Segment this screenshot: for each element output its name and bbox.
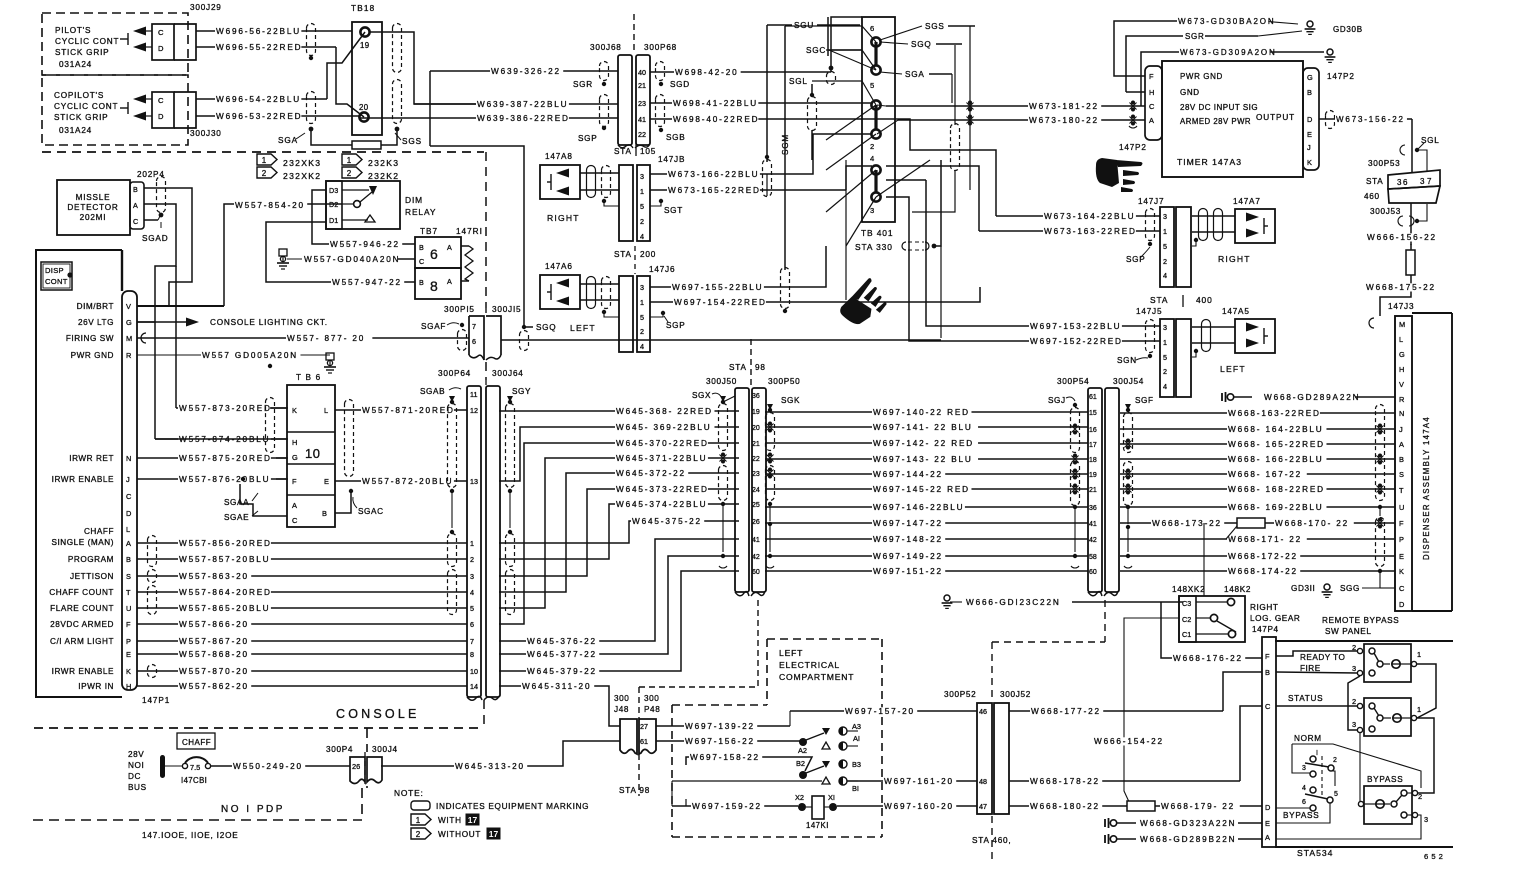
wire W557-857-20BLU	[137, 558, 467, 560]
svg-text:SW PANEL: SW PANEL	[1325, 627, 1372, 636]
wire switch1-3 to switch2-3	[1348, 676, 1360, 730]
svg-text:W697-146-22BLU: W697-146-22BLU	[873, 503, 964, 512]
svg-text:STATUS: STATUS	[1288, 694, 1323, 703]
wire D1 to W557-947-22	[266, 222, 415, 282]
legend 2 WITHOUT 17	[411, 828, 431, 839]
wire W557-862-20	[137, 685, 467, 687]
legend 1 WITH 17	[411, 814, 431, 825]
svg-text:24: 24	[752, 487, 760, 494]
wire W697-141-22BLU	[765, 426, 1088, 428]
svg-text:G: G	[1399, 350, 1405, 359]
svg-text:19: 19	[360, 41, 369, 50]
svg-text:3: 3	[1163, 212, 1167, 221]
svg-text:300PI5: 300PI5	[444, 305, 475, 314]
svg-text:W668-172-22: W668-172-22	[1228, 552, 1298, 561]
svg-text:SGS: SGS	[925, 22, 945, 31]
wire switch2-3 down to bypass	[1359, 733, 1361, 804]
svg-text:S: S	[126, 572, 131, 581]
svg-text:DIM: DIM	[405, 195, 423, 205]
wire 202P4-A to console G	[137, 204, 176, 322]
wire W639-326-22	[429, 71, 431, 146]
svg-text:JETTISON: JETTISON	[70, 572, 114, 581]
svg-text:8: 8	[470, 650, 474, 659]
svg-text:200: 200	[640, 250, 656, 259]
svg-text:LOG. GEAR: LOG. GEAR	[1250, 614, 1300, 623]
svg-text:2: 2	[1418, 792, 1422, 801]
wire W668-164-22BLU	[1120, 428, 1395, 430]
wires 147J5 to 147A5	[1192, 326, 1235, 328]
wire W557-870-20	[137, 670, 467, 672]
svg-text:WITHOUT: WITHOUT	[438, 830, 481, 839]
svg-text:W557- 877- 20: W557- 877- 20	[287, 334, 365, 343]
wire W668-172-22	[1120, 555, 1395, 557]
svg-text:147A5: 147A5	[1222, 307, 1250, 316]
svg-text:TB7: TB7	[420, 227, 438, 236]
wire W673-166-22BLU	[650, 173, 767, 175]
svg-text:031A24: 031A24	[59, 126, 92, 135]
svg-text:RELAY: RELAY	[405, 207, 436, 217]
station 460 dashed boundary	[991, 642, 993, 700]
shield right of TB6	[345, 400, 354, 477]
svg-text:3: 3	[1302, 765, 1306, 772]
svg-text:W645-375-22: W645-375-22	[632, 517, 702, 526]
svg-text:46: 46	[979, 707, 987, 716]
wire W697-152-22RED	[886, 197, 1160, 341]
wire console R W557-GD005A20N to ground	[137, 354, 322, 356]
svg-text:147RI: 147RI	[456, 227, 483, 236]
dispenser assembly connector bar	[1395, 316, 1412, 611]
wire W696-54-22BLU	[196, 98, 327, 100]
wire console M W557-877-20	[137, 337, 469, 339]
svg-text:W557-863-20: W557-863-20	[179, 572, 249, 581]
svg-text:W557 GD005A20N: W557 GD005A20N	[202, 351, 298, 360]
svg-text:L: L	[1399, 335, 1403, 344]
svg-text:147A7: 147A7	[1233, 197, 1261, 206]
svg-text:147J6: 147J6	[649, 265, 675, 274]
svg-text:SGAC: SGAC	[358, 507, 384, 516]
svg-text:15: 15	[1089, 410, 1097, 417]
svg-text:W673-156-22: W673-156-22	[1336, 115, 1405, 124]
wire W673-GD309A20N	[1141, 52, 1180, 106]
wire W697-151-22	[765, 570, 1088, 572]
svg-text:F: F	[126, 620, 131, 629]
svg-text:W557-872-20BLU: W557-872-20BLU	[362, 477, 453, 486]
svg-text:W697-151-22: W697-151-22	[873, 567, 943, 576]
svg-text:NOI: NOI	[128, 761, 144, 770]
svg-text:W668-GD289B22N: W668-GD289B22N	[1140, 835, 1236, 844]
svg-text:W697-156-22: W697-156-22	[685, 737, 755, 746]
enclosure PILOT'S CYCLIC CONT STICK GRIP (dashed)	[42, 13, 188, 75]
svg-text:W557-865-20BLU: W557-865-20BLU	[179, 604, 270, 613]
svg-text:W645-372-22: W645-372-22	[616, 469, 686, 478]
svg-text:5: 5	[870, 81, 874, 90]
svg-text:SGM: SGM	[781, 134, 790, 155]
svg-text:TB 401: TB 401	[861, 228, 893, 238]
svg-text:26: 26	[352, 762, 360, 771]
svg-text:V: V	[1399, 380, 1404, 389]
svg-text:T B 6: T B 6	[296, 373, 321, 382]
svg-text:4: 4	[1163, 271, 1167, 280]
svg-text:147A6: 147A6	[545, 262, 573, 271]
wire TB6-K left	[270, 407, 287, 409]
svg-text:5: 5	[640, 202, 644, 211]
wire W557-866-20	[137, 623, 467, 625]
wire 300J64-10 W645-379-22	[499, 571, 739, 671]
wire W639-387-22BLU	[414, 103, 618, 105]
NO1 PDP dashed bottom	[33, 819, 362, 821]
svg-text:147P1: 147P1	[142, 696, 170, 705]
svg-text:W697-145-22 RED: W697-145-22 RED	[873, 485, 970, 494]
svg-text:NO I PDP: NO I PDP	[221, 804, 285, 815]
wire TB6-B to SGAC	[335, 493, 351, 513]
wire W557-873-20RED	[176, 407, 288, 409]
svg-text:1: 1	[416, 816, 421, 825]
svg-text:W697-141- 22 BLU: W697-141- 22 BLU	[873, 423, 973, 432]
shield console S wire	[148, 570, 157, 583]
svg-text:W697-158-22: W697-158-22	[690, 753, 760, 762]
wire W673-180-22	[898, 119, 1145, 121]
svg-text:1: 1	[262, 156, 267, 165]
wire W550-249-20	[211, 765, 350, 767]
shield at STA330	[902, 242, 929, 250]
svg-text:A: A	[1265, 833, 1270, 842]
svg-text:C3: C3	[1182, 599, 1191, 608]
svg-text:GD3II: GD3II	[1291, 584, 1315, 593]
svg-text:WITH: WITH	[438, 816, 462, 825]
svg-text:SGAA: SGAA	[224, 498, 249, 507]
svg-text:J48: J48	[614, 705, 629, 714]
svg-text:SGP: SGP	[578, 134, 597, 143]
wire W668-176-22 to F	[1161, 602, 1262, 658]
wire W698-41-22BLU	[650, 102, 872, 104]
svg-text:SGA: SGA	[905, 70, 925, 79]
wires 147J7 to 147A7	[1192, 215, 1235, 217]
svg-text:18: 18	[1089, 457, 1097, 464]
wire W696-56-22BLU	[196, 30, 352, 32]
svg-text:61: 61	[640, 737, 648, 746]
svg-text:W668-178-22: W668-178-22	[1030, 777, 1100, 786]
svg-text:28VDC ARMED: 28VDC ARMED	[50, 620, 114, 629]
svg-text:FIRING SW: FIRING SW	[66, 334, 114, 343]
svg-text:W668-177-22: W668-177-22	[1031, 707, 1101, 716]
svg-text:W697-140-22 RED: W697-140-22 RED	[873, 408, 970, 417]
svg-text:41: 41	[1089, 521, 1097, 528]
svg-text:BYPASS: BYPASS	[1283, 811, 1319, 820]
svg-text:STA: STA	[614, 147, 632, 156]
svg-text:V: V	[126, 302, 131, 311]
wire 202P4-C to shield	[144, 219, 158, 221]
diagonal W668-171 to resistor	[1226, 526, 1237, 539]
wire SGC vertical	[827, 17, 829, 56]
svg-text:147P2: 147P2	[1119, 143, 1147, 152]
circuit breaker 147CB1 CHAFF	[165, 765, 182, 767]
ground W666-GD123C22N	[944, 595, 950, 601]
pilot grip switch symbol	[120, 38, 128, 40]
wire W697-146-22BLU	[765, 506, 1088, 508]
console unit outline	[36, 250, 122, 697]
wire C2 to W666-154-22	[1124, 618, 1179, 804]
svg-text:FLARE COUNT: FLARE COUNT	[50, 604, 114, 613]
shield left of TB18	[307, 24, 316, 56]
svg-text:28V: 28V	[128, 750, 144, 759]
svg-text:CONSOLE: CONSOLE	[336, 707, 420, 721]
svg-text:J: J	[1307, 143, 1311, 152]
svg-text:17: 17	[468, 815, 478, 825]
wire W668-178-22 to C	[1009, 780, 1240, 782]
svg-text:E: E	[1265, 819, 1270, 828]
svg-text:031A24: 031A24	[59, 60, 92, 69]
svg-text:202MI: 202MI	[80, 213, 107, 222]
svg-text:300J64: 300J64	[492, 369, 524, 378]
svg-text:OUTPUT: OUTPUT	[1256, 113, 1295, 122]
svg-text:C: C	[158, 96, 164, 105]
shield left 147J7	[1146, 209, 1155, 241]
svg-text:E: E	[126, 650, 131, 659]
svg-text:XI: XI	[828, 793, 835, 802]
svg-text:SGAF: SGAF	[421, 322, 446, 331]
svg-text:W668-175-22: W668-175-22	[1366, 283, 1436, 292]
svg-text:W557-871-20RED: W557-871-20RED	[362, 406, 455, 415]
svg-text:147P2: 147P2	[1327, 72, 1355, 81]
wires 147A8 to 147J8	[580, 172, 619, 174]
shield right of 300J64	[506, 404, 515, 488]
svg-text:1: 1	[1163, 338, 1167, 347]
svg-text:W696-55-22RED: W696-55-22RED	[216, 43, 302, 52]
svg-text:BYPASS: BYPASS	[1367, 775, 1403, 784]
flag 1 232XK3	[257, 154, 277, 165]
shield 202P4	[157, 177, 166, 213]
svg-text:3: 3	[1352, 664, 1356, 673]
svg-text:W697-154-22RED: W697-154-22RED	[674, 298, 767, 307]
svg-text:CYCLIC CONT: CYCLIC CONT	[55, 37, 119, 46]
box MISSLE DETECTOR 202MI	[57, 180, 130, 235]
svg-text:CONT: CONT	[45, 277, 68, 286]
timer output D wire W673-156-22	[1319, 118, 1412, 120]
svg-text:6 5 2: 6 5 2	[1424, 852, 1443, 861]
wire D3 to W557-946-22	[312, 190, 415, 244]
svg-text:W697-160-20: W697-160-20	[884, 802, 954, 811]
svg-text:W666-156-22: W666-156-22	[1367, 233, 1437, 242]
wire W668-173-22 / resistor / W668-170-22	[1120, 522, 1395, 524]
svg-text:11: 11	[470, 390, 477, 399]
svg-text:SGJ: SGJ	[1048, 396, 1066, 405]
svg-text:48: 48	[979, 777, 987, 786]
svg-text:IRWR ENABLE: IRWR ENABLE	[52, 475, 114, 484]
svg-text:SGQ: SGQ	[536, 323, 556, 332]
svg-text:B: B	[133, 185, 138, 194]
svg-text:60: 60	[752, 569, 760, 576]
svg-text:19: 19	[752, 409, 760, 416]
svg-text:37: 37	[1420, 177, 1434, 186]
svg-text:2: 2	[1333, 757, 1337, 764]
svg-text:CYCLIC CONT: CYCLIC CONT	[54, 102, 118, 111]
wire W673-165-22RED	[650, 189, 846, 191]
wire SGL shield	[811, 84, 813, 95]
svg-text:SGAD: SGAD	[142, 234, 168, 243]
svg-text:W673-180-22: W673-180-22	[1029, 116, 1099, 125]
svg-text:300J4: 300J4	[372, 745, 398, 754]
svg-text:4: 4	[640, 232, 644, 241]
svg-text:W645-370-22RED: W645-370-22RED	[616, 439, 709, 448]
svg-text:GND: GND	[1180, 88, 1200, 97]
svg-text:5: 5	[470, 604, 474, 613]
svg-text:41: 41	[638, 115, 646, 124]
svg-text:K: K	[126, 667, 131, 676]
svg-text:W668-163-22RED: W668-163-22RED	[1228, 409, 1321, 418]
svg-text:22: 22	[752, 456, 760, 463]
svg-text:J: J	[126, 475, 130, 484]
svg-text:W697-139-22: W697-139-22	[685, 722, 755, 731]
svg-text:W697-143- 22 BLU: W697-143- 22 BLU	[873, 455, 973, 464]
svg-text:5: 5	[1334, 791, 1338, 798]
svg-text:TIMER 147A3: TIMER 147A3	[1177, 157, 1242, 167]
svg-text:147J3: 147J3	[1388, 302, 1414, 311]
svg-text:LEFT: LEFT	[570, 323, 596, 333]
svg-text:T: T	[1399, 486, 1404, 495]
wire W557-874-20BLU	[155, 438, 288, 440]
svg-text:400: 400	[1196, 295, 1213, 305]
svg-text:W639-387-22BLU: W639-387-22BLU	[477, 100, 568, 109]
svg-text:SGS: SGS	[402, 137, 422, 146]
svg-text:B: B	[1399, 455, 1404, 464]
dim relay contacts	[354, 201, 361, 208]
svg-text:U: U	[126, 604, 131, 613]
label SGP at 147J6	[661, 311, 665, 315]
wire W698-40-22RED	[650, 119, 996, 216]
svg-text:B: B	[419, 278, 424, 287]
svg-text:W557-876-20BLU: W557-876-20BLU	[179, 475, 270, 484]
station98 dashed jog	[757, 600, 759, 687]
wire TB6-L W557-871-20RED	[335, 409, 467, 411]
svg-text:J: J	[1399, 425, 1403, 434]
svg-text:6: 6	[1302, 799, 1306, 806]
wire W668-163-22RED	[1120, 412, 1395, 414]
wire W557-856-20RED	[137, 542, 467, 544]
wire W696-53-22RED	[196, 115, 360, 117]
svg-text:W668-176-22: W668-176-22	[1173, 654, 1243, 663]
svg-text:C2: C2	[1182, 615, 1191, 624]
svg-text:3: 3	[640, 283, 644, 292]
box DISP CONT	[41, 262, 72, 290]
wire W697-139-22	[656, 725, 790, 727]
svg-text:W668- 167-22: W668- 167-22	[1228, 470, 1302, 479]
svg-text:IRWR RET: IRWR RET	[69, 454, 114, 463]
wire W698-42-20	[650, 71, 831, 73]
svg-text:E: E	[1399, 552, 1404, 561]
svg-text:6: 6	[430, 246, 438, 262]
panel top rule	[1275, 640, 1453, 642]
svg-text:W698-42-20: W698-42-20	[675, 68, 739, 77]
wire from STA330 shield up	[934, 160, 941, 246]
flag 2 232K2	[342, 167, 362, 178]
svg-text:41: 41	[752, 537, 760, 544]
svg-text:36: 36	[1089, 505, 1097, 512]
svg-text:3: 3	[470, 572, 474, 581]
flag 1 232K3	[342, 154, 362, 165]
copilot grip switch symbol	[120, 107, 128, 109]
svg-text:2: 2	[1163, 367, 1167, 376]
svg-text:10: 10	[470, 667, 478, 676]
ground W557-GD040A20N	[279, 249, 287, 256]
wire SGU vertical	[766, 25, 768, 162]
svg-text:36: 36	[1397, 178, 1409, 187]
svg-text:STA: STA	[1366, 177, 1383, 186]
svg-text:4: 4	[1302, 785, 1306, 792]
svg-text:DETECTOR: DETECTOR	[67, 203, 118, 212]
wire W557-863-20	[137, 575, 467, 577]
svg-text:W645-374-22BLU: W645-374-22BLU	[616, 500, 707, 509]
svg-text:13: 13	[470, 477, 478, 486]
svg-text:1: 1	[1163, 227, 1167, 236]
svg-text:I: I	[1316, 750, 1318, 757]
wire pilot RED to TB18-20	[336, 47, 364, 117]
enclosure COPILOT'S CYCLIC CONT STICK GRIP (dashed)	[42, 75, 188, 145]
wire W668-169-22BLU	[1120, 506, 1395, 508]
wire 300J64-7 W645-376-22	[499, 539, 739, 641]
shield console T-U wires	[148, 586, 157, 615]
svg-text:W673-GD309A2ON: W673-GD309A2ON	[1180, 48, 1277, 57]
shield left of 300P64	[448, 404, 457, 488]
svg-text:H: H	[126, 682, 131, 691]
svg-text:W697-144-22: W697-144-22	[873, 470, 943, 479]
wire W668-177-22 to B	[1009, 710, 1223, 712]
svg-text:300P68: 300P68	[644, 43, 677, 52]
svg-text:147JB: 147JB	[658, 155, 685, 164]
svg-text:E: E	[324, 477, 329, 486]
wire A to bypass-3	[1276, 815, 1421, 839]
wire SGS to SGQ (down right)	[430, 146, 533, 327]
svg-text:P: P	[126, 637, 131, 646]
svg-text:G: G	[1307, 73, 1313, 82]
svg-text:148K2: 148K2	[1224, 585, 1251, 594]
svg-text:300P52: 300P52	[944, 690, 976, 699]
svg-text:CONSOLE LIGHTING CKT.: CONSOLE LIGHTING CKT.	[210, 318, 328, 327]
wire W557-854-20 to D2	[224, 204, 342, 306]
svg-text:C/I ARM LIGHT: C/I ARM LIGHT	[50, 637, 114, 646]
svg-text:STA 330: STA 330	[855, 242, 893, 252]
svg-text:STA: STA	[1150, 295, 1168, 305]
svg-text:STICK GRIP: STICK GRIP	[54, 113, 108, 122]
svg-text:H: H	[1149, 88, 1154, 97]
label SGT	[659, 199, 663, 203]
svg-text:1: 1	[640, 298, 644, 307]
svg-text:G: G	[126, 318, 132, 327]
svg-text:1: 1	[640, 187, 644, 196]
svg-text:300J52: 300J52	[1000, 690, 1031, 699]
svg-text:A3: A3	[852, 722, 861, 731]
svg-text:3: 3	[1424, 815, 1428, 824]
wire W673-GD308A20N to GD308	[1114, 21, 1178, 76]
svg-text:B: B	[419, 243, 424, 252]
svg-text:26: 26	[752, 519, 760, 526]
svg-text:8: 8	[430, 278, 438, 294]
svg-text:5: 5	[1163, 242, 1167, 251]
svg-text:61: 61	[1089, 394, 1097, 401]
wire 300J64-12 W645-368-22RED	[499, 410, 739, 412]
svg-text:40: 40	[638, 68, 646, 77]
wire B1 row	[672, 780, 822, 782]
wire W697-158-22 to B2	[686, 757, 812, 771]
svg-text:W673-166-22BLU: W673-166-22BLU	[668, 170, 759, 179]
svg-text:B: B	[1265, 668, 1270, 677]
wire W697-157-20	[789, 711, 791, 726]
wire norm5 to E	[1331, 771, 1335, 786]
wire W697-145-22RED	[765, 488, 1088, 490]
svg-text:300J68: 300J68	[590, 43, 622, 52]
wire W557-868-20	[137, 653, 467, 655]
svg-text:W668-180-22: W668-180-22	[1030, 802, 1100, 811]
wire W697-159-22 to X2	[672, 805, 798, 807]
